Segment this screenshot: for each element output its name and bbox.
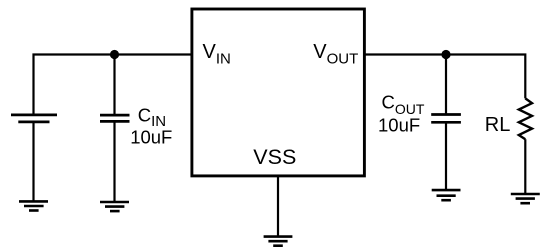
svg-text:10uF: 10uF [378, 115, 420, 136]
wire input net: battery to VIN [34, 55, 191, 115]
wire COUT to ground [445, 122, 447, 190]
capacitor CIN [100, 115, 130, 121]
wire CIN to ground [113, 121, 115, 202]
value label CIN 10uF [130, 104, 172, 147]
node output junction dot [441, 50, 450, 59]
regulator box [192, 9, 365, 176]
wire output net: VOUT to RL [364, 55, 525, 99]
svg-text:VIN: VIN [203, 41, 231, 67]
node input junction dot [110, 50, 119, 59]
svg-text:COUT: COUT [382, 92, 425, 117]
svg-text:RL: RL [485, 114, 511, 136]
pin label VOUT [313, 41, 358, 68]
value label COUT 10uF [378, 92, 425, 136]
ground VSS [264, 237, 293, 246]
pin label VSS [253, 145, 296, 169]
pin label VIN [203, 41, 231, 67]
ground battery [19, 201, 48, 210]
value label RL [485, 114, 511, 136]
ground CIN [100, 202, 129, 211]
capacitor COUT [431, 115, 461, 123]
wire VSS to ground [277, 176, 279, 237]
resistor RL [519, 98, 532, 139]
ground RL [511, 194, 540, 203]
wire CIN top [113, 55, 115, 115]
battery [11, 115, 57, 122]
wire COUT top [445, 55, 447, 114]
wire battery to ground [32, 122, 34, 201]
svg-text:VOUT: VOUT [313, 41, 358, 68]
ground COUT [432, 190, 461, 200]
svg-text:10uF: 10uF [130, 127, 172, 148]
svg-text:VSS: VSS [253, 145, 296, 169]
wire RL to ground [524, 139, 526, 194]
